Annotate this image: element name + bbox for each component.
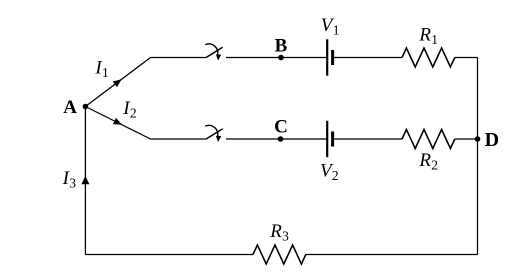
current arrow I2 (113, 118, 122, 125)
svg-text:C: C (274, 117, 288, 138)
wire A to middle corner (I2 branch diagonal) (85, 107, 150, 140)
wire R2 to node D (455, 138, 478, 140)
svg-text:D: D (485, 129, 499, 151)
current arrow I3 (81, 176, 89, 185)
wire S2 to battery V2 (through node C) (226, 138, 327, 140)
wire V2 to resistor R2 (333, 138, 402, 140)
battery V2 short plate (331, 132, 334, 147)
svg-text:V2: V2 (320, 160, 339, 182)
svg-text:I2: I2 (122, 98, 136, 120)
bottom wire left segment to R3 (85, 254, 253, 256)
battery V1 long plate (326, 39, 328, 75)
node A junction dot (83, 104, 89, 110)
svg-text:I1: I1 (94, 57, 108, 79)
switch S1 blade (206, 47, 223, 57)
svg-text:B: B (275, 36, 288, 57)
wire R1 to top-right corner (455, 57, 478, 59)
battery V1 short plate (331, 50, 334, 65)
node D dot (475, 136, 481, 142)
bottom wire right segment to bottom-right corner (306, 254, 478, 256)
resistor R2 (402, 130, 455, 149)
wire S1 to battery V1 (through node B) (226, 57, 327, 59)
svg-text:I3: I3 (62, 168, 77, 190)
svg-text:A: A (63, 97, 77, 118)
svg-text:V1: V1 (321, 15, 340, 37)
wire top corner to switch S1 (151, 57, 207, 59)
switch S2 closing arc arrow (205, 125, 218, 136)
svg-text:R2: R2 (418, 150, 438, 172)
wire node D down to bottom-right corner (477, 139, 479, 255)
svg-text:R3: R3 (269, 221, 289, 243)
resistor R3 (253, 245, 306, 264)
resistor R1 (402, 48, 455, 67)
switch S1 closing arc arrow (205, 44, 218, 55)
wire V1 to resistor R1 (333, 57, 402, 59)
wire A to top corner (I1 branch diagonal) (85, 58, 150, 107)
battery V2 long plate (326, 121, 328, 157)
node B dot (278, 55, 284, 61)
wire middle corner to switch S2 (151, 138, 207, 140)
wire A down to bottom-left corner (I3 branch) (84, 107, 86, 255)
node C dot (278, 136, 284, 142)
wire top-right corner down to node D (477, 58, 479, 140)
current arrow I1 (113, 79, 122, 87)
svg-text:R1: R1 (418, 25, 438, 47)
switch S2 blade (206, 129, 223, 139)
